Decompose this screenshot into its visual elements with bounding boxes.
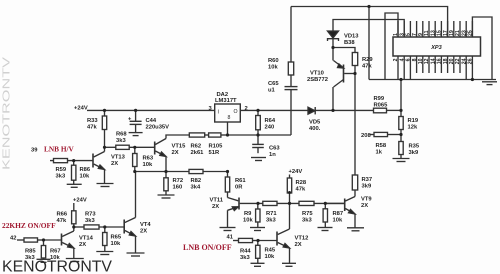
svg-text:R35: R35 — [409, 144, 420, 150]
svg-text:42: 42 — [10, 236, 16, 242]
ground R67 — [37, 258, 51, 260]
node 208 resistor R58 — [370, 134, 374, 136]
svg-text:10k: 10k — [80, 173, 90, 179]
svg-text:6: 6 — [406, 58, 412, 61]
pin 5 — [409, 21, 411, 37]
svg-text:19: 19 — [449, 30, 455, 36]
svg-text:2: 2 — [245, 106, 248, 112]
junction — [331, 109, 334, 112]
resistor R65 — [104, 227, 106, 233]
svg-text:10k: 10k — [268, 64, 278, 70]
pin 1 — [397, 21, 399, 37]
svg-text:12k: 12k — [408, 124, 418, 130]
svg-text:47k: 47k — [57, 218, 67, 224]
svg-text:I: I — [218, 110, 219, 116]
svg-text:R63: R63 — [143, 156, 154, 162]
ground R45 — [251, 262, 265, 264]
junction — [367, 5, 370, 8]
pin 11 — [428, 21, 430, 37]
pin 18 — [447, 56, 449, 73]
svg-text:16: 16 — [437, 58, 443, 64]
capacitor C65 — [285, 86, 298, 88]
svg-text:+24V: +24V — [289, 169, 303, 175]
resistor R66 — [72, 211, 76, 224]
svg-text:R71: R71 — [266, 211, 277, 217]
svg-text:9: 9 — [418, 33, 424, 36]
ground VT4 — [127, 252, 145, 254]
svg-text:47k: 47k — [362, 63, 372, 69]
svg-text:14: 14 — [430, 58, 436, 64]
wire pin25 to right drop — [472, 17, 492, 80]
svg-text:KENOTRONTV: KENOTRONTV — [2, 259, 113, 274]
op-amp U1 regulator DA2 box — [215, 104, 241, 122]
pin 12 — [428, 56, 430, 73]
pin numbers top — [393, 30, 473, 36]
wire left outer drop to ground bus — [368, 7, 370, 80]
wire DA2 output rail — [240, 109, 308, 111]
svg-text:47k: 47k — [296, 186, 306, 192]
resistor R105 — [209, 133, 221, 137]
svg-text:10: 10 — [418, 58, 424, 64]
svg-text:2SB772: 2SB772 — [307, 77, 328, 83]
ground VT13 — [97, 183, 114, 185]
capacitor C63 — [257, 135, 259, 144]
junction — [256, 109, 259, 112]
transistor VT11 — [238, 198, 240, 210]
svg-text:R67: R67 — [50, 249, 61, 255]
pin numbers bottom — [393, 58, 473, 64]
svg-text:+24V: +24V — [74, 105, 88, 111]
wire bus y203 — [258, 202, 344, 204]
resistor R33 — [104, 110, 106, 116]
ground R86 — [67, 183, 82, 185]
junction — [399, 133, 402, 136]
junction — [42, 238, 45, 241]
svg-text:R105: R105 — [209, 144, 224, 150]
svg-text:VT10: VT10 — [310, 71, 324, 77]
wire base row y147 — [105, 146, 116, 148]
ground VT11 — [220, 227, 236, 229]
svg-text:0R: 0R — [235, 184, 243, 190]
resistor R72 — [165, 172, 167, 178]
svg-text:1n: 1n — [269, 152, 276, 158]
svg-text:3k3: 3k3 — [85, 218, 95, 224]
resistor R28 — [289, 175, 291, 179]
svg-text:25: 25 — [468, 30, 474, 36]
svg-text:1k: 1k — [376, 149, 383, 155]
junction — [72, 159, 75, 162]
svg-text:3k4: 3k4 — [191, 184, 201, 190]
svg-text:23: 23 — [461, 30, 467, 36]
svg-text:KENOTRONTV: KENOTRONTV — [2, 56, 13, 170]
svg-text:VT9: VT9 — [361, 197, 372, 203]
junction — [331, 46, 334, 49]
svg-text:LNB ON/OFF: LNB ON/OFF — [183, 243, 232, 252]
svg-text:VT12: VT12 — [295, 236, 309, 242]
resistor R99 — [374, 108, 387, 113]
svg-text:2k61: 2k61 — [191, 150, 205, 156]
ground R65 — [96, 251, 113, 253]
transistor VT10 — [343, 65, 345, 83]
svg-text:3k3: 3k3 — [56, 173, 66, 179]
junction — [288, 191, 291, 194]
svg-text:LNB H/V: LNB H/V — [44, 145, 75, 154]
junction — [103, 146, 106, 149]
svg-text:R73: R73 — [85, 212, 96, 218]
svg-text:2X: 2X — [172, 150, 179, 156]
wire C65 drop — [290, 90, 292, 135]
pin 22 — [459, 56, 461, 73]
pin 17 — [447, 21, 449, 37]
svg-text:10k: 10k — [333, 217, 343, 223]
svg-text:2X: 2X — [79, 242, 86, 248]
junction — [226, 133, 229, 136]
pin 14 — [434, 56, 436, 73]
svg-text:VT11: VT11 — [210, 198, 224, 204]
junction — [133, 146, 136, 149]
svg-text:2X: 2X — [361, 203, 368, 209]
wire node to R29 — [333, 48, 355, 53]
svg-text:13: 13 — [430, 30, 436, 36]
resistor R59 — [54, 159, 68, 163]
svg-text:18: 18 — [443, 58, 449, 64]
svg-text:10k: 10k — [111, 241, 121, 247]
svg-text:10k: 10k — [265, 254, 275, 260]
wire +24V rail — [87, 109, 215, 111]
svg-text:3: 3 — [399, 33, 405, 36]
zener VD13 — [328, 31, 339, 38]
svg-text:R86: R86 — [80, 167, 91, 173]
input 41 resistor R44 — [233, 240, 239, 242]
resistor R37 — [352, 175, 357, 190]
junction — [471, 78, 474, 81]
junction — [134, 109, 137, 112]
svg-text:R72: R72 — [173, 178, 184, 184]
svg-text:208: 208 — [361, 133, 371, 139]
input 42 resistor R85 — [17, 239, 24, 241]
ground C63 — [251, 157, 266, 159]
svg-text:R065: R065 — [374, 102, 389, 108]
svg-text:LM317T: LM317T — [215, 98, 237, 104]
resistor R45 — [257, 241, 259, 246]
pin 13 — [434, 21, 436, 37]
svg-text:20: 20 — [449, 58, 455, 64]
junction — [324, 202, 327, 205]
svg-text:C44: C44 — [146, 118, 157, 124]
svg-text:5: 5 — [406, 33, 412, 36]
wire R62 R105 adj row — [166, 135, 189, 139]
transistor VT13 — [92, 154, 94, 168]
svg-text:VT14: VT14 — [79, 236, 94, 242]
svg-text:3k9: 3k9 — [409, 150, 419, 156]
resistor R82 — [189, 169, 203, 173]
svg-text:400.: 400. — [309, 126, 321, 132]
svg-text:17: 17 — [443, 30, 449, 36]
svg-text:R44: R44 — [240, 249, 251, 255]
resistor R19 — [399, 117, 403, 130]
svg-text:220u35V: 220u35V — [146, 124, 170, 130]
transistor VT9 — [344, 199, 346, 212]
pin 25 — [471, 21, 473, 37]
svg-text:R66: R66 — [57, 212, 68, 218]
svg-text:47k: 47k — [87, 124, 97, 130]
pin 7 — [416, 21, 418, 37]
svg-text:21: 21 — [455, 30, 461, 36]
wire bus y171.5 — [135, 171, 228, 173]
svg-text:4: 4 — [399, 58, 405, 61]
ground C44 — [129, 132, 143, 134]
svg-text:10k: 10k — [143, 162, 153, 168]
svg-text:2: 2 — [393, 58, 399, 61]
junction — [353, 72, 356, 75]
svg-text:R33: R33 — [87, 118, 98, 124]
svg-text:VD5: VD5 — [309, 120, 321, 126]
svg-text:1: 1 — [393, 33, 399, 36]
svg-text:O: O — [234, 109, 238, 115]
resistor R87 — [324, 203, 326, 208]
resistor R68 — [116, 145, 129, 149]
resistor R73 — [84, 225, 99, 229]
ground VT12 — [282, 262, 296, 264]
svg-text:10k: 10k — [243, 217, 253, 223]
pin 10 — [422, 56, 424, 73]
resistor R63 — [134, 147, 136, 153]
junction — [72, 225, 75, 228]
svg-text:R9: R9 — [244, 211, 252, 217]
junction — [288, 202, 291, 205]
junction — [226, 170, 229, 173]
svg-text:51R: 51R — [209, 150, 220, 156]
svg-text:R45: R45 — [265, 248, 276, 254]
transistor VT12 — [276, 232, 278, 246]
transistor VT4 — [123, 220, 125, 234]
svg-text:2X: 2X — [212, 204, 219, 210]
resistor R75 — [299, 201, 314, 205]
resistor R61 — [227, 172, 229, 178]
svg-text:12: 12 — [424, 58, 430, 64]
junction — [133, 170, 136, 173]
resistor R9 — [257, 203, 259, 209]
pin 20 — [453, 56, 455, 73]
svg-text:B38: B38 — [344, 40, 355, 46]
svg-text:R19: R19 — [408, 118, 419, 124]
wire pin1 loop — [385, 13, 398, 80]
pin 8 — [416, 56, 418, 73]
svg-text:R28: R28 — [296, 180, 307, 186]
wire VD13 cathode to node — [332, 39, 334, 61]
pin 6 — [409, 56, 411, 80]
junction — [164, 170, 167, 173]
ground VT9 — [347, 227, 364, 229]
svg-text:R82: R82 — [191, 178, 202, 184]
svg-text:R37: R37 — [362, 177, 373, 183]
svg-text:R75: R75 — [302, 211, 313, 217]
resistor R86 — [73, 161, 75, 166]
svg-text:XP3: XP3 — [430, 45, 442, 51]
junction — [399, 78, 402, 81]
transistor VT15 — [154, 142, 156, 155]
svg-text:R62: R62 — [191, 144, 202, 150]
pin 3 — [403, 21, 405, 37]
svg-text:VT13: VT13 — [111, 155, 126, 161]
pin 4 — [403, 56, 405, 80]
svg-text:3k3: 3k3 — [116, 138, 126, 144]
pin 9 — [422, 21, 424, 37]
ground R35 — [393, 158, 410, 160]
junction — [399, 109, 402, 112]
svg-text:8: 8 — [412, 58, 418, 61]
svg-text:41: 41 — [227, 235, 234, 241]
wire top-left drop to R60 — [290, 7, 292, 63]
svg-text:240: 240 — [265, 124, 275, 130]
pin 16 — [440, 56, 442, 73]
svg-text:2X: 2X — [295, 242, 302, 248]
svg-text:3k9: 3k9 — [362, 183, 372, 189]
pin 19 — [453, 21, 455, 37]
pin 26 — [471, 56, 473, 80]
wire top rail to XP3 pin17 — [291, 7, 448, 38]
svg-text:3k3: 3k3 — [240, 255, 250, 261]
svg-text:VT4: VT4 — [140, 222, 151, 228]
svg-text:8: 8 — [228, 115, 231, 121]
svg-text:R64: R64 — [265, 118, 276, 124]
junction — [103, 109, 106, 112]
wire +24V drop to R66 — [73, 203, 75, 211]
svg-text:u1: u1 — [268, 87, 276, 93]
svg-text:2X: 2X — [140, 228, 147, 234]
transistor VT14 — [61, 234, 63, 246]
svg-text:C65: C65 — [268, 81, 279, 87]
svg-text:39: 39 — [31, 148, 38, 154]
ground R72 — [158, 194, 175, 196]
ground bus ground — [482, 81, 497, 83]
ground R87 — [318, 227, 333, 229]
svg-text:R29: R29 — [362, 57, 373, 63]
resistor R60 — [288, 62, 293, 75]
pin 24 — [465, 56, 467, 80]
svg-text:26: 26 — [468, 58, 474, 64]
svg-text:R68: R68 — [116, 132, 127, 138]
junction — [103, 225, 106, 228]
pin 2 — [397, 56, 399, 80]
junction — [256, 133, 259, 136]
wire base row y227 — [74, 226, 84, 228]
resistor R64 — [257, 110, 259, 115]
resistor R71 — [263, 201, 277, 205]
svg-text:160: 160 — [173, 184, 183, 190]
svg-text:R87: R87 — [333, 211, 344, 217]
pin 15 — [440, 21, 442, 37]
svg-text:R61: R61 — [235, 178, 246, 184]
resistor R62 — [189, 133, 204, 137]
junction — [256, 202, 259, 205]
svg-text:VD13: VD13 — [344, 34, 359, 40]
svg-text:R65: R65 — [111, 235, 122, 241]
ground VT14 — [66, 258, 84, 260]
svg-text:7: 7 — [412, 33, 418, 36]
svg-text:11: 11 — [424, 30, 430, 36]
svg-text:R99: R99 — [374, 96, 385, 102]
svg-text:+24V: +24V — [73, 198, 87, 204]
pin 21 — [459, 21, 461, 37]
svg-text:R85: R85 — [25, 249, 36, 255]
svg-text:VT15: VT15 — [172, 144, 187, 150]
svg-text:2X: 2X — [111, 161, 118, 167]
connector XP3 — [393, 37, 481, 56]
svg-text:R60: R60 — [268, 58, 279, 64]
wire ADJ row — [228, 134, 292, 136]
svg-text:R59: R59 — [56, 167, 67, 173]
junction — [256, 239, 259, 242]
svg-text:C63: C63 — [269, 146, 280, 152]
svg-text:22: 22 — [455, 58, 461, 64]
resistor R35 — [399, 142, 403, 155]
svg-text:22KHZ ON/OFF: 22KHZ ON/OFF — [2, 221, 56, 230]
svg-text:3k3: 3k3 — [302, 217, 312, 223]
wire VD13 to pin3 — [333, 20, 404, 38]
pin 23 — [465, 21, 467, 37]
svg-text:R58: R58 — [376, 143, 387, 149]
diode VD5 — [308, 107, 315, 114]
wire VT10 base chain down to R37 — [354, 74, 356, 176]
ground R9 — [250, 227, 265, 229]
wire XP3 sense drop — [400, 80, 402, 117]
svg-text:15: 15 — [437, 30, 443, 36]
resistor R29 — [352, 53, 357, 66]
svg-text:24: 24 — [461, 58, 467, 64]
capacitor C44 — [135, 110, 137, 121]
resistor R67 — [43, 240, 45, 246]
svg-text:3k3: 3k3 — [266, 217, 276, 223]
wire ground bus under XP3 — [369, 79, 496, 81]
